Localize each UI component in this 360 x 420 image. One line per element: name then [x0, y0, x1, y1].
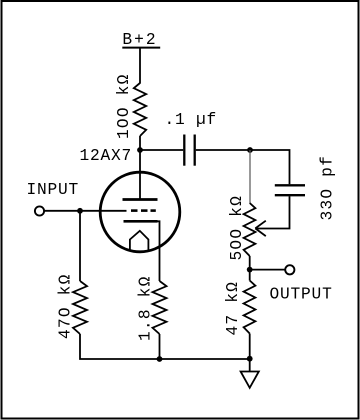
potentiometer 500 kOhm: [244, 203, 256, 256]
wire R 1.8k to bottom rail: [159, 334, 161, 359]
resistor 47 kOhm: [244, 281, 256, 334]
label 1.8 kOhm: [137, 276, 155, 342]
label 500 kOhm: [228, 195, 246, 261]
ground: [241, 372, 259, 388]
wire junction to 330pf branch: [250, 150, 290, 184]
wire rail to R 100k: [139, 48, 141, 84]
wire output node to terminal: [250, 269, 286, 271]
wire pot bottom to output node: [249, 256, 251, 270]
node coupling junction: [247, 147, 253, 153]
wire coupling cap to output node: [196, 149, 250, 151]
svg-text:B+2: B+2: [122, 31, 157, 49]
node plate junction: [137, 147, 143, 153]
cathode of V1: [124, 220, 158, 223]
capacitor .1 uf: [184, 135, 194, 166]
wire 330pf to wiper: [257, 196, 290, 228]
wiper arrow of potentiometer: [255, 221, 265, 236]
svg-text:5OO kΩ: 5OO kΩ: [228, 195, 246, 261]
wire R 47k to ground node: [249, 334, 251, 359]
svg-text:INPUT: INPUT: [27, 181, 80, 199]
wire cathode lead to R 1.8k: [158, 221, 160, 281]
svg-text:OUTPUT: OUTPUT: [270, 285, 333, 303]
label INPUT: [27, 181, 80, 199]
terminal OUTPUT: [285, 265, 294, 274]
svg-text:1OO kΩ: 1OO kΩ: [115, 74, 133, 140]
wire bottom rail: [160, 358, 250, 360]
label 12AX7: [80, 147, 133, 165]
plate of V1: [123, 198, 158, 201]
wire R 100k to plate node: [139, 136, 141, 150]
svg-text:47 kΩ: 47 kΩ: [224, 281, 242, 336]
node grid junction: [77, 208, 83, 214]
label 330 pf: [319, 155, 337, 221]
wire output node to R 47k: [249, 270, 251, 281]
svg-text:33O pf: 33O pf: [319, 155, 337, 221]
svg-text:12AX7: 12AX7: [80, 147, 133, 165]
label 47 kOhm: [224, 281, 242, 336]
B+2 supply rail: [122, 47, 160, 49]
capacitor 330 pf: [275, 185, 305, 195]
svg-text:47O kΩ: 47O kΩ: [57, 274, 75, 340]
resistor 470 kOhm: [73, 281, 87, 334]
wire grid node to R 470k: [79, 211, 81, 281]
wire input to grid: [44, 210, 126, 212]
terminal INPUT: [35, 206, 44, 215]
node output junction: [247, 267, 253, 273]
label .1 uf: [165, 111, 218, 129]
tube V1 12AX7 envelope: [100, 172, 180, 252]
resistor 100 kOhm: [134, 83, 146, 136]
label 100 kOhm: [115, 74, 133, 140]
wire coupling junction to potentiometer top: [249, 150, 251, 203]
wire plate node to coupling cap: [140, 149, 183, 151]
wire ground lead: [249, 359, 251, 372]
label 470 kOhm: [57, 274, 75, 340]
node bottom rail junction: [157, 356, 163, 362]
node B+2 label: [122, 31, 157, 49]
wire R 470k to bottom rail: [80, 334, 160, 359]
svg-text:.1 µf: .1 µf: [165, 111, 218, 129]
heater of V1: [130, 231, 149, 250]
resistor 1.8 kOhm: [153, 281, 167, 334]
node ground junction: [247, 356, 253, 362]
label OUTPUT: [270, 285, 333, 303]
wire plate lead: [139, 150, 141, 199]
svg-text:1.8 kΩ: 1.8 kΩ: [137, 276, 155, 342]
grid of V1: [131, 209, 156, 212]
